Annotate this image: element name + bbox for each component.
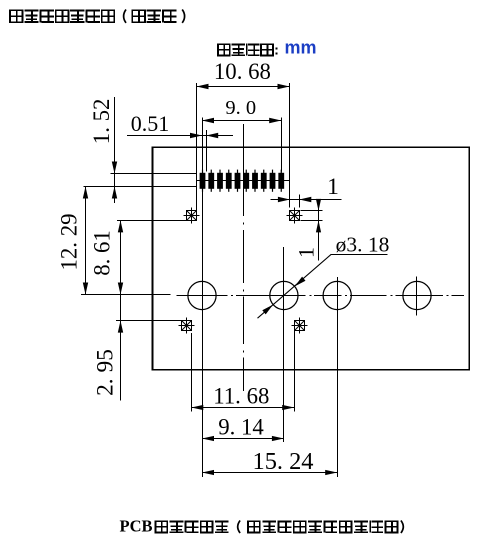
mounting hole 2 circle: [270, 281, 298, 309]
svg-text:10. 68: 10. 68: [214, 59, 271, 84]
dim 11.68 line: [191, 407, 294, 409]
mounting hole 1 circle: [188, 281, 216, 309]
dim 15.24 arrows: [202, 470, 214, 475]
dim 9.14 line: [202, 438, 284, 440]
module outline rectangle: [153, 147, 470, 370]
svg-text:1: 1: [294, 247, 319, 258]
hatched pad lower-right: [295, 321, 305, 331]
dim 12.29 line: [85, 187, 87, 295]
hatched pad lower-left: [182, 321, 192, 331]
dim 9.0 line: [202, 120, 281, 122]
dim 15.24 line: [202, 472, 337, 474]
ext line: housing left edge: [196, 83, 198, 211]
svg-text:15. 24: 15. 24: [253, 448, 314, 475]
hatched pad upper-right: [290, 211, 300, 221]
ext line: 0.51 right: [206, 130, 208, 172]
svg-text:1. 52: 1. 52: [89, 99, 114, 145]
dim 1-horiz arrows: [278, 197, 290, 202]
hole 3 vertical centerline: [337, 277, 339, 477]
dim 0.51 line: [127, 135, 233, 137]
dim 12.29 arrows: [83, 187, 88, 199]
leader line ø3.18: [258, 254, 332, 318]
dim 2.95 arrows: [118, 321, 123, 333]
ext line: hole row left: [81, 294, 171, 296]
svg-text:9. 0: 9. 0: [225, 97, 256, 119]
mounting hole 4 circle: [403, 281, 431, 309]
dim 10.68 line: [197, 86, 290, 88]
svg-text:2. 95: 2. 95: [93, 349, 119, 396]
svg-text:8. 61: 8. 61: [90, 230, 115, 276]
bottom title: PCB安装尺寸图（图中斜线部分不可布线）: [120, 517, 404, 536]
hatched pad upper-left: [187, 211, 197, 221]
dim 8.61 line: [120, 220, 122, 294]
ext line: pin1/hole1 center (long): [202, 118, 204, 477]
dim 9.14 arrows: [202, 436, 214, 441]
dim 1.52 arrows: [112, 162, 117, 174]
dim 11.68 arrows: [191, 405, 203, 410]
title: 模块安装示意图（顶视图）: [9, 9, 185, 23]
ext line: upper-left pad bottom: [117, 220, 187, 222]
dim 9.0 arrows: [202, 118, 214, 123]
svg-text:mm: mm: [284, 38, 316, 58]
dim 1-vert ext bottom: [301, 220, 323, 222]
dim 8.61 arrows: [118, 220, 123, 232]
svg-text:12. 29: 12. 29: [57, 214, 82, 271]
ext line: pin10 center: [281, 118, 283, 172]
ext line: lower-left pad right edge: [191, 333, 193, 412]
ext line B (1.52 below): [84, 186, 197, 188]
dim 1-vert ext top: [301, 210, 323, 212]
pin row midline: [197, 180, 290, 182]
svg-text:11. 68: 11. 68: [213, 384, 269, 409]
dim 10.68 arrows: [197, 84, 209, 89]
hole 4 vertical centerline: [416, 276, 418, 315]
svg-text:PCB: PCB: [120, 517, 153, 536]
dim 0.51 arrows: [190, 133, 202, 138]
horizontal hole-row centerline (dash-dot): [177, 295, 465, 297]
vertical centerline (dash-dot): [243, 124, 245, 391]
ext line: lower-right pad left edge: [294, 331, 296, 412]
dim 1-vert arrows: [316, 199, 321, 211]
dim 1.52 line: [114, 97, 116, 203]
dim 2.95 line: [120, 295, 122, 401]
svg-text:1: 1: [327, 174, 339, 200]
svg-text:9. 14: 9. 14: [218, 415, 264, 440]
connector pins (10 pads): [200, 170, 285, 192]
dim 1-vert line: [318, 200, 320, 261]
svg-text:0.51: 0.51: [131, 111, 170, 136]
ext line: housing right edge: [289, 83, 291, 208]
dim 1-horiz ext: [299, 195, 301, 208]
svg-text:ø3. 18: ø3. 18: [336, 233, 390, 257]
leader arrows on hole 2: [295, 277, 306, 287]
dim 1-horiz line: [271, 199, 342, 201]
ext line A (pin top level): [110, 173, 196, 175]
ext line: lower-left pad top: [116, 320, 182, 322]
hole 2 vertical centerline: [283, 247, 285, 442]
mounting hole 3 circle: [323, 281, 351, 309]
label: 尺寸单位：mm: [217, 38, 317, 58]
